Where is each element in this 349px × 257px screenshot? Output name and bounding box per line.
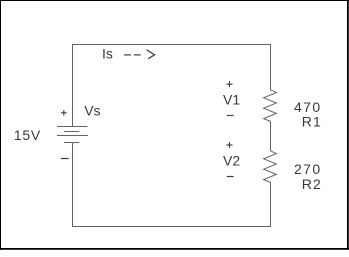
svg-text:V2: V2 xyxy=(223,153,240,169)
current arrow of Is xyxy=(124,50,155,59)
wire top: node A to node B xyxy=(72,44,271,46)
resistor R1 470 ohm zigzag xyxy=(264,90,277,122)
resistor R2 270 ohm zigzag xyxy=(264,151,277,183)
svg-text:15V: 15V xyxy=(14,127,41,143)
svg-text:Vs: Vs xyxy=(84,103,100,119)
polarity + of V2 xyxy=(226,142,232,148)
wire right lower: R2 down to node C xyxy=(270,182,272,227)
wire left lower: battery - terminal down to node D xyxy=(72,143,74,228)
voltage source Vs 15V battery xyxy=(57,127,88,143)
svg-text:V1: V1 xyxy=(223,92,240,108)
wire left upper: node A down to battery + terminal xyxy=(72,44,74,127)
svg-text:270: 270 xyxy=(294,161,322,177)
polarity - of V2 xyxy=(227,176,234,178)
polarity + of Vs xyxy=(61,110,67,116)
svg-text:R1: R1 xyxy=(302,114,322,130)
polarity - of V1 xyxy=(227,115,234,117)
wire right upper: node B down to R1 xyxy=(270,44,272,90)
polarity + of V1 xyxy=(226,81,232,87)
polarity - of Vs xyxy=(61,158,69,160)
wire bottom: node D to node C xyxy=(72,226,271,228)
svg-text:Is: Is xyxy=(102,46,113,62)
wire right middle: R1 to R2 xyxy=(270,121,272,151)
svg-text:R2: R2 xyxy=(302,176,322,192)
